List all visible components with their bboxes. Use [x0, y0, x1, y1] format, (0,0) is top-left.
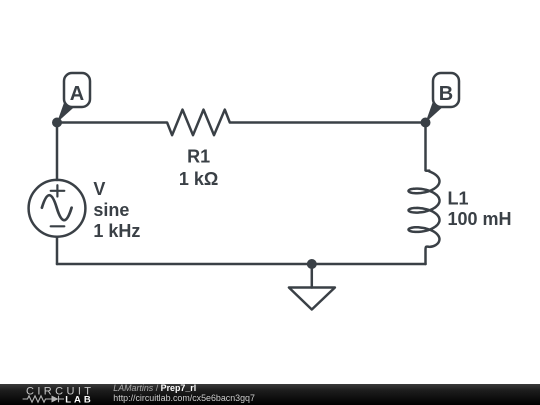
svg-text:V: V: [93, 179, 105, 199]
svg-text:L1: L1: [448, 189, 469, 209]
svg-text:http://circuitlab.com/cx5e6bac: http://circuitlab.com/cx5e6bacn3gq7: [113, 393, 255, 403]
svg-text:100 mH: 100 mH: [448, 209, 512, 229]
svg-text:LAMartins / Prep7_rl: LAMartins / Prep7_rl: [113, 383, 196, 393]
svg-text:A: A: [70, 83, 84, 105]
svg-text:LAB: LAB: [65, 395, 94, 405]
svg-text:R1: R1: [187, 146, 210, 166]
svg-text:1 kHz: 1 kHz: [93, 221, 140, 241]
svg-text:B: B: [439, 83, 453, 105]
svg-text:1 kΩ: 1 kΩ: [179, 169, 218, 189]
svg-text:sine: sine: [93, 200, 129, 220]
